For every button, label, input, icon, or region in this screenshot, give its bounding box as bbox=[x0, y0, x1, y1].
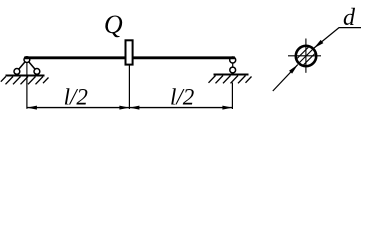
extension line middle bbox=[128, 66, 130, 110]
section centerline horizontal bbox=[288, 55, 321, 57]
section hatch lines bbox=[297, 47, 315, 65]
beam bbox=[24, 56, 235, 59]
dim arrow far left bbox=[27, 106, 37, 110]
dimension line left l/2 bbox=[27, 107, 129, 109]
svg-text:l/2: l/2 bbox=[64, 84, 88, 109]
right support pin circle bbox=[230, 57, 236, 63]
dim arrow far right bbox=[222, 106, 232, 110]
right ground hatching bbox=[209, 76, 252, 84]
svg-text:d: d bbox=[343, 5, 356, 31]
left support triangle legs bbox=[17, 60, 27, 72]
dimension line right l/2 bbox=[129, 107, 232, 109]
left ground line bbox=[6, 75, 45, 77]
dim arrow mid pointing right bbox=[119, 106, 129, 110]
left ground hatching bbox=[1, 77, 49, 85]
left support roller circle right bbox=[34, 69, 40, 75]
extension line right bbox=[231, 83, 233, 110]
dim arrow mid pointing left bbox=[129, 106, 139, 110]
right support link bbox=[232, 63, 234, 68]
left support roller circle left bbox=[14, 69, 20, 75]
section circle d bbox=[296, 46, 316, 66]
svg-text:l/2: l/2 bbox=[170, 85, 194, 110]
leader arrow lower left bbox=[289, 65, 298, 74]
leader line lower left bbox=[273, 65, 298, 91]
leader arrow upper right bbox=[314, 40, 323, 48]
leader line upper right bbox=[314, 28, 361, 48]
left support center post bbox=[26, 60, 28, 75]
extension line left bbox=[26, 77, 28, 109]
right ground line bbox=[214, 74, 249, 76]
section centerline vertical bbox=[305, 39, 307, 73]
left support pin circle bbox=[24, 57, 30, 63]
svg-text:Q: Q bbox=[104, 10, 123, 39]
right support roller circle bbox=[230, 67, 236, 73]
load block at midspan bbox=[126, 40, 133, 64]
